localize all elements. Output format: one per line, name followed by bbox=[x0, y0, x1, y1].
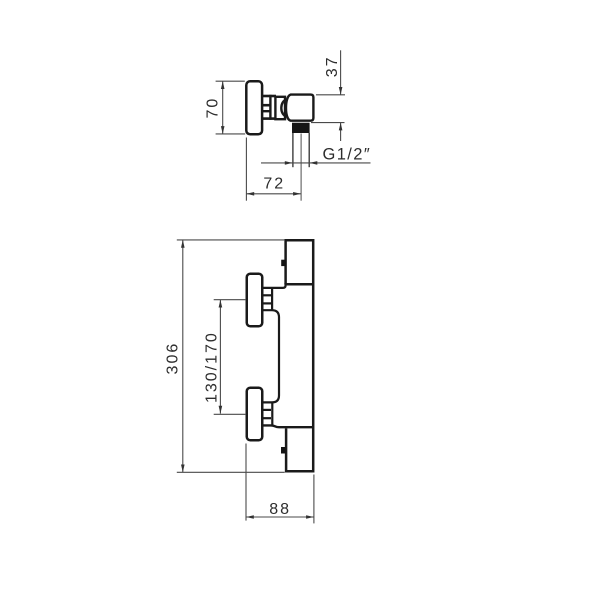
svg-text:G1/2″: G1/2″ bbox=[323, 145, 372, 163]
svg-text:130/170: 130/170 bbox=[203, 331, 220, 403]
svg-text:72: 72 bbox=[263, 176, 285, 193]
svg-text:88: 88 bbox=[269, 501, 291, 518]
svg-text:306: 306 bbox=[164, 342, 181, 375]
svg-text:37: 37 bbox=[324, 56, 341, 78]
svg-text:70: 70 bbox=[204, 97, 221, 119]
